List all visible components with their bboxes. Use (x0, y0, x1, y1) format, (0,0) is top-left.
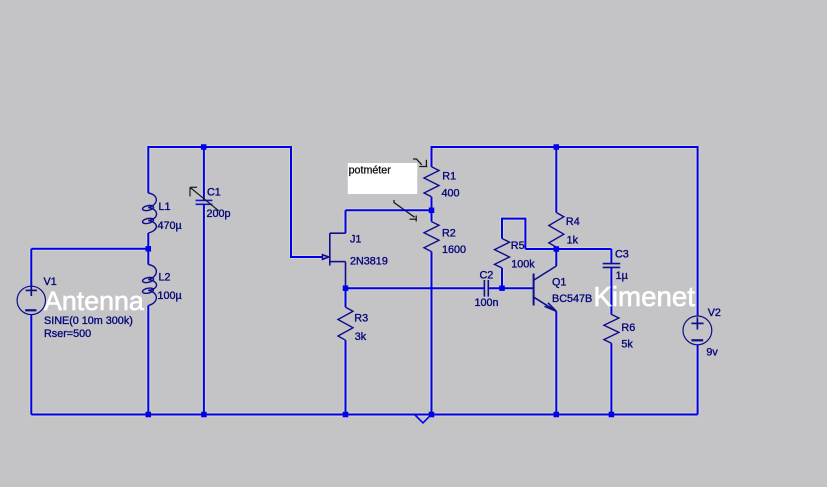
junction rail emitter (554, 412, 560, 418)
svg-text:5k: 5k (621, 339, 633, 351)
wire V2 top lead (697, 146, 699, 316)
svg-text:Q1: Q1 (552, 277, 566, 289)
resistor R2 (424, 222, 439, 252)
ground (415, 415, 431, 423)
junction rail R3 (343, 412, 349, 418)
wire R1 top lead (431, 146, 433, 167)
resistor R5 (495, 239, 510, 269)
svg-text:470µ: 470µ (158, 220, 182, 232)
junction top rail C1 (201, 144, 207, 150)
svg-text:2N3819: 2N3819 (350, 256, 388, 268)
wire L1-L2 middle (147, 233, 149, 265)
svg-text:R5: R5 (511, 240, 525, 252)
wire R1-R2 link (431, 197, 433, 222)
svg-text:Kimenet: Kimenet (593, 281, 695, 312)
wire L1 top lead (147, 146, 149, 193)
wire J1 drain lead (345, 210, 347, 233)
svg-text:V2: V2 (708, 307, 721, 319)
svg-text:L2: L2 (159, 272, 171, 284)
svg-text:potméter: potméter (349, 165, 392, 177)
svg-text:R2: R2 (442, 228, 456, 240)
arrow pot wiper lower (394, 200, 417, 222)
capacitor C2 (484, 280, 488, 297)
junction rail R6 (609, 412, 615, 418)
wire C2 to base (489, 287, 533, 289)
wire V1 top horizontal (31, 248, 148, 250)
capacitor C1 (196, 200, 213, 204)
voltage source V1 (17, 285, 45, 315)
wire R6 bottom lead (610, 343, 612, 414)
wire source node to C2 (346, 287, 485, 289)
svg-text:C1: C1 (207, 187, 221, 199)
wire R3 bottom lead (345, 340, 347, 414)
wire R5 top loop (502, 219, 525, 249)
wire L2 bottom lead (147, 306, 149, 415)
wire collector node horizontal (525, 248, 611, 250)
svg-text:R3: R3 (354, 313, 368, 325)
transistor J1 (JFET) (323, 233, 346, 288)
wire source node to R3 (345, 288, 347, 307)
wire gate drop (290, 146, 292, 257)
resistor R3 (338, 307, 353, 340)
junction L1-L2 node (146, 246, 152, 252)
svg-text:9v: 9v (706, 347, 718, 359)
resistor R4 (549, 213, 564, 248)
svg-text:400: 400 (442, 188, 460, 200)
junction rail R2-ground (429, 412, 435, 418)
junction J1 source node (343, 285, 349, 291)
wire R5 bottom lead (501, 268, 503, 288)
potmeter note box (348, 163, 417, 194)
wire R4 top lead (555, 147, 557, 213)
svg-text:100µ: 100µ (158, 290, 182, 302)
svg-text:1600: 1600 (442, 244, 466, 256)
svg-text:R6: R6 (621, 322, 635, 334)
wire top-left rail (148, 146, 291, 148)
wire halo underlay (31, 146, 697, 415)
wire V2 bottom lead (697, 345, 699, 415)
wire C3 top lead (610, 249, 612, 264)
wire Q1 collector lead (555, 249, 557, 266)
svg-text:100k: 100k (511, 258, 535, 270)
junction rail C1 (201, 412, 207, 418)
junction rail L2 (146, 412, 152, 418)
svg-text:Antenna: Antenna (44, 286, 144, 316)
svg-text:C3: C3 (615, 249, 629, 261)
wire C1 bottom lead (203, 205, 205, 415)
wire gate lead (290, 256, 323, 258)
junction top rail R4 (554, 144, 560, 150)
arrow pot wiper upper (413, 159, 427, 167)
junction collector node (554, 246, 560, 252)
capacitor C3 (603, 264, 621, 268)
wire R4 bottom lead (555, 247, 557, 249)
wire R2 bottom lead (431, 252, 433, 415)
wire V1 top lead (30, 249, 32, 287)
resistor R6 (604, 314, 619, 343)
svg-text:200p: 200p (207, 208, 231, 220)
junction R1-R2 node (429, 208, 435, 214)
svg-text:BC547B: BC547B (552, 293, 592, 305)
svg-text:L1: L1 (159, 201, 171, 213)
arrow on C1 (190, 187, 219, 211)
svg-text:100n: 100n (475, 297, 499, 309)
inductor L2 (142, 265, 157, 306)
svg-text:1k: 1k (567, 235, 579, 247)
voltage source V2 (683, 316, 712, 345)
wire Q1 emitter lead (555, 311, 557, 414)
wire drain node horizontal (346, 209, 432, 211)
wire C1 top lead (203, 146, 205, 200)
svg-text:C2: C2 (480, 270, 494, 282)
wire top-right rail (432, 146, 698, 148)
wire bottom ground rail (31, 414, 697, 416)
resistor R1 (424, 167, 439, 197)
wire V1 bottom lead (30, 315, 32, 415)
junction base node (499, 285, 505, 291)
svg-text:J1: J1 (350, 234, 361, 246)
svg-text:R4: R4 (566, 216, 580, 228)
inductor L1 (142, 193, 157, 233)
svg-text:Rser=500: Rser=500 (44, 328, 91, 340)
svg-text:3k: 3k (355, 331, 367, 343)
wire C3 to R6 (610, 268, 612, 315)
svg-text:R1: R1 (442, 171, 456, 183)
svg-text:SINE(0 10m 300k): SINE(0 10m 300k) (44, 315, 133, 327)
transistor Q1 (NPN) (534, 266, 557, 311)
